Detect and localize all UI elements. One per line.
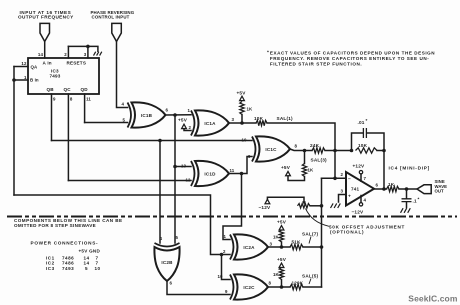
svg-text:IC1C: IC1C <box>265 147 277 152</box>
svg-text:EXACT VALUES OF CAPACITORS DEP: EXACT VALUES OF CAPACITORS DEPEND UPON T… <box>270 51 435 56</box>
junction IC2A in2 branch <box>220 253 224 257</box>
wire 1K to node <box>241 115 243 124</box>
resistor 24K <box>310 143 325 153</box>
xor gate IC2C <box>230 274 268 299</box>
svg-text:−12V: −12V <box>259 205 272 210</box>
junction feedback right <box>382 149 386 153</box>
pin 1 B-in wire <box>14 75 28 80</box>
svg-text:1K: 1K <box>247 107 254 112</box>
svg-text:+5V: +5V <box>178 118 188 123</box>
junction summing node A <box>333 149 337 153</box>
wire J2 down to IC1B input 4 <box>117 42 128 108</box>
power table row IC1 <box>46 256 99 261</box>
svg-text:1K: 1K <box>388 182 395 187</box>
note: exact values of capacitors <box>267 50 435 67</box>
input connector J2 (phase control) <box>112 23 122 41</box>
wire Bin rail bottom run <box>14 195 230 255</box>
wire -12V to pot wiper <box>267 197 304 201</box>
svg-text:OUT: OUT <box>435 189 445 194</box>
pot wiper arrow <box>302 201 305 205</box>
svg-text:7493: 7493 <box>62 266 74 271</box>
svg-text:13: 13 <box>181 164 187 169</box>
svg-text:8: 8 <box>70 97 73 102</box>
input connector J1 (clock input) <box>40 23 50 41</box>
svg-text:IC1A: IC1A <box>204 121 216 126</box>
ground for resets <box>94 52 102 56</box>
resistor 1K pull-up (IC1A node) <box>240 102 253 115</box>
wire 120K to rail corner <box>303 286 322 288</box>
label components below line <box>14 218 123 228</box>
label: input frequency text <box>18 10 74 20</box>
wire IC2A output <box>268 246 290 248</box>
svg-text:120K: 120K <box>292 280 304 285</box>
svg-text:6: 6 <box>166 108 169 113</box>
svg-text:1K: 1K <box>308 168 315 173</box>
label SAL(5) <box>302 273 319 284</box>
wire IC1C out to 24K <box>290 149 312 151</box>
svg-text:+5V: +5V <box>277 257 287 262</box>
svg-text:24K: 24K <box>310 143 320 148</box>
svg-text:FREQUENCY. REMOVE CAPACITORS E: FREQUENCY. REMOVE CAPACITORS ENTIRELY TO… <box>270 56 429 61</box>
svg-text:12: 12 <box>21 61 27 66</box>
svg-text:1K: 1K <box>273 272 280 277</box>
IC2A pin labels <box>223 234 273 254</box>
wire J1 to pin 14 <box>44 42 46 59</box>
svg-text:IC2A: IC2A <box>243 245 255 250</box>
wire IC1D out <box>229 157 252 174</box>
wire QB branch down to IC2B input 4 <box>159 141 161 244</box>
IC1C pin labels <box>242 138 298 160</box>
svg-text:2: 2 <box>64 52 67 57</box>
xor gate IC1C <box>252 136 290 161</box>
svg-text:IC1D: IC1D <box>204 172 216 177</box>
svg-text:RESETS: RESETS <box>67 61 87 66</box>
svg-text:7493: 7493 <box>50 74 61 79</box>
label IC4 mini-dip <box>389 166 431 171</box>
+5V supply for SAL(3) <box>281 165 305 181</box>
wire pin 2 input <box>322 172 347 178</box>
svg-text:IC2B: IC2B <box>161 260 173 265</box>
IC1A pin labels <box>188 108 235 130</box>
wire pot to summing rail <box>310 205 322 207</box>
junction QA/Bin <box>12 78 16 82</box>
wire feedback down to output <box>383 151 385 190</box>
resistor 1K IC2A pull-up <box>273 230 284 247</box>
svg-text:CONTROL INPUT: CONTROL INPUT <box>92 15 130 20</box>
wire to output connector <box>399 188 417 190</box>
wire feedback right <box>377 150 384 152</box>
junction output cap <box>405 187 409 191</box>
svg-text:SAL(3): SAL(3) <box>311 158 328 163</box>
svg-text:OMITTED FOR 8 STEP SINEWAVE: OMITTED FOR 8 STEP SINEWAVE <box>14 223 96 228</box>
svg-text:POWER CONNECTIONS-: POWER CONNECTIONS- <box>31 241 99 246</box>
svg-text:+5V: +5V <box>281 165 291 170</box>
resistor 1K output <box>387 182 400 192</box>
wire 51K to rail <box>303 246 322 248</box>
wire IC2B out to IC2C in9 <box>167 281 230 295</box>
svg-text:.1: .1 <box>413 199 418 204</box>
power table header <box>79 248 101 253</box>
pin 14 label <box>38 52 44 57</box>
svg-text:IC1B: IC1B <box>141 113 153 118</box>
ground at output cap <box>401 208 411 213</box>
capacitor .1 to ground <box>402 189 420 208</box>
svg-text:QA: QA <box>31 65 39 70</box>
svg-text:SAL(1): SAL(1) <box>277 116 294 121</box>
svg-text:10K: 10K <box>254 116 264 121</box>
+5V supply IC2C pull-up <box>277 257 287 268</box>
pin 3 stub <box>84 46 88 58</box>
-12V supply pin 4 <box>352 196 367 215</box>
svg-text:3: 3 <box>270 242 273 247</box>
svg-text:3: 3 <box>232 117 235 122</box>
ground at pin 3 <box>331 203 341 208</box>
svg-text:+12V: +12V <box>353 164 366 169</box>
summing rail vertical <box>321 178 323 287</box>
svg-text:IC2C: IC2C <box>243 285 255 290</box>
svg-text:1: 1 <box>188 108 191 113</box>
pin 12 QA wire <box>14 61 28 67</box>
svg-text:2: 2 <box>223 249 226 254</box>
wire 24K to summing node <box>325 150 352 152</box>
+5V supply above 1K pull-up <box>237 91 247 101</box>
svg-text:IC3: IC3 <box>46 266 55 271</box>
label sine wave out <box>435 179 448 194</box>
junction pot/rail <box>320 204 324 208</box>
capacitor .01 feedback <box>352 118 385 151</box>
svg-text:8: 8 <box>269 281 272 286</box>
svg-text:QD: QD <box>81 87 89 92</box>
wire pin 3 input <box>339 189 347 203</box>
xor gate IC2A <box>230 234 268 259</box>
power table row IC2 <box>46 261 99 266</box>
-12V supply for offset <box>259 199 272 210</box>
wire IC1D out down to IC2A in1 <box>223 174 242 240</box>
svg-text:1: 1 <box>224 234 227 239</box>
power table row IC3 <box>46 266 101 271</box>
svg-text:*: * <box>267 50 269 56</box>
svg-text:*: * <box>418 196 420 201</box>
resistor 120K SAL(5) <box>290 280 304 289</box>
resistor 10K series SAL(1) <box>254 116 267 126</box>
pin 11 QD stub <box>85 94 92 123</box>
+12V supply pin 7 <box>353 164 367 182</box>
svg-text:−: − <box>348 178 351 183</box>
svg-text:+5V GND: +5V GND <box>79 248 101 253</box>
junction reset pins <box>86 45 90 49</box>
svg-text:741: 741 <box>351 187 360 192</box>
wire IC1A output to node <box>229 122 256 124</box>
junction IC1B output <box>173 113 177 117</box>
svg-text:9: 9 <box>53 97 56 102</box>
junction feedback left <box>350 149 354 153</box>
pin 2 stub <box>64 46 68 58</box>
IC1B pin labels <box>122 102 169 123</box>
op-amp U1 741 triangle <box>346 172 374 206</box>
svg-text:SAL(7): SAL(7) <box>302 231 319 236</box>
svg-text:12: 12 <box>186 178 192 183</box>
junction QB branch <box>158 139 162 143</box>
junction IC1D output <box>240 172 244 176</box>
label: phase reversing text <box>91 10 135 20</box>
junction pin2/summing <box>333 177 337 181</box>
svg-text:QC: QC <box>64 87 72 92</box>
svg-text:+5V: +5V <box>237 91 247 96</box>
junction 51K/rail <box>320 245 324 249</box>
wire SAL(1) to summing <box>267 116 335 150</box>
xor gate IC1B <box>128 102 166 127</box>
svg-text:11: 11 <box>86 97 91 102</box>
wire QD to IC1B input 5 <box>85 122 128 124</box>
junction IC1A output node <box>240 121 244 125</box>
svg-text:10: 10 <box>242 138 248 143</box>
junction at IC1D input 13 <box>173 165 177 169</box>
svg-text:A in: A in <box>43 61 52 66</box>
svg-text:11: 11 <box>230 168 235 173</box>
potentiometer 50K <box>298 204 311 209</box>
pin 9 QB stub <box>52 94 57 141</box>
svg-text:8: 8 <box>295 144 298 149</box>
resistor 1K IC2C pull-up <box>273 268 284 288</box>
svg-text:2: 2 <box>341 172 344 177</box>
wire QA feedback rail down-left <box>13 67 15 196</box>
svg-text:B in: B in <box>30 78 39 83</box>
xor gate IC1D <box>191 161 229 186</box>
svg-text:+: + <box>348 195 351 200</box>
dashed omit line <box>7 216 457 218</box>
svg-text:SeekIC.com: SeekIC.com <box>408 294 458 304</box>
junction IC2A node <box>280 245 284 249</box>
callout 50K offset <box>306 209 406 235</box>
xor gate IC1A <box>191 110 229 135</box>
wire QC to IC1D input 12 <box>68 180 191 182</box>
svg-text:OUTPUT FREQUENCY: OUTPUT FREQUENCY <box>18 15 74 20</box>
svg-text:7: 7 <box>364 176 367 181</box>
svg-text:+5V: +5V <box>277 219 287 224</box>
output connector sine wave <box>417 185 431 194</box>
svg-text:2: 2 <box>189 125 192 130</box>
resistor 1K SAL(3) <box>302 151 327 177</box>
label power connections <box>31 241 99 246</box>
IC2B pin labels <box>160 235 179 286</box>
svg-text:−12V: −12V <box>352 210 365 215</box>
svg-text:5: 5 <box>85 266 88 271</box>
junction SAL(3) tap <box>303 149 307 153</box>
junction IC2C node <box>280 285 284 289</box>
svg-text:1K: 1K <box>273 235 280 240</box>
svg-text:10K: 10K <box>358 143 368 148</box>
svg-text:6: 6 <box>170 281 173 286</box>
svg-text:3: 3 <box>341 189 344 194</box>
svg-text:51K: 51K <box>292 239 302 244</box>
junction output <box>382 187 386 191</box>
svg-text:4: 4 <box>160 236 163 241</box>
svg-text:5: 5 <box>176 235 179 240</box>
svg-text:4: 4 <box>122 102 125 107</box>
wire QB to IC1C input 10 <box>52 140 253 142</box>
svg-text:FILTERED STAIR STEP FUNCTION.: FILTERED STAIR STEP FUNCTION. <box>270 62 362 67</box>
svg-text:*: * <box>366 118 368 123</box>
svg-text:3: 3 <box>84 52 87 57</box>
+5V supply IC2A pull-up <box>277 219 287 230</box>
reset tie wire <box>68 46 98 51</box>
svg-text:QB: QB <box>47 87 55 92</box>
svg-text:4: 4 <box>364 198 367 203</box>
svg-text:14: 14 <box>38 52 44 57</box>
xor gate IC2B <box>154 243 179 281</box>
wire IC2C output <box>268 286 290 288</box>
IC2C pin labels <box>218 274 272 294</box>
wire IC1B out down to IC1D in13 <box>175 115 191 167</box>
svg-text:.01: .01 <box>358 120 365 125</box>
pin 8 QC stub <box>68 94 73 181</box>
wire output pin 6 <box>374 183 387 190</box>
wire IC1B out to IC1A in1 <box>166 114 192 116</box>
svg-text:10: 10 <box>218 274 224 279</box>
wire summing node down to pin2 <box>334 151 336 179</box>
svg-text:(OPTIONAL): (OPTIONAL) <box>330 229 364 234</box>
resistor 51K SAL(7) <box>290 239 303 249</box>
wire down to IC2B input 5 <box>174 167 176 244</box>
svg-text:SAL(5): SAL(5) <box>302 273 319 278</box>
wire branch to IC2C in10 <box>222 255 231 280</box>
svg-text:9: 9 <box>225 289 228 294</box>
IC1D pin labels <box>181 164 235 183</box>
label SAL(7) <box>302 231 319 243</box>
watermark SeekIC.com <box>408 294 458 304</box>
svg-text:IC4 [MINI-DIP]: IC4 [MINI-DIP] <box>389 166 431 171</box>
svg-text:10: 10 <box>95 266 101 271</box>
resistor 10K feedback <box>356 143 378 153</box>
counter IC3 7493 box <box>28 58 99 94</box>
svg-text:6: 6 <box>376 183 379 188</box>
+5V supply for IC1A pin 2 <box>178 118 191 131</box>
